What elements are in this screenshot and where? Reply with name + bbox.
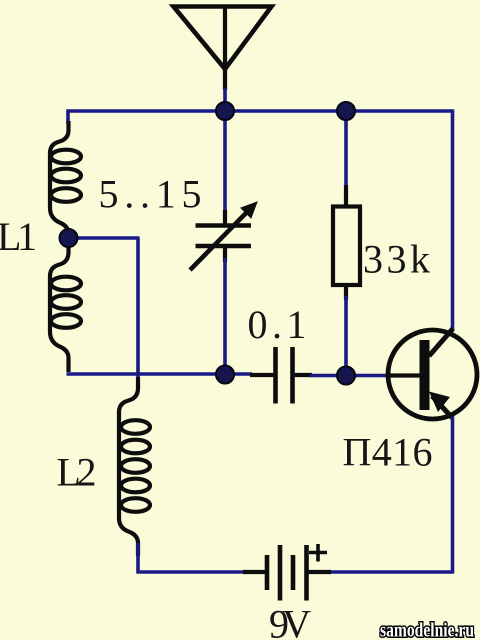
svg-text:9V: 9V — [269, 602, 311, 640]
capacitor 0.1 — [250, 347, 312, 404]
wire resistor bottom — [344, 296, 348, 377]
resistor 33k — [333, 185, 360, 300]
svg-text:samodelnie.ru: samodelnie.ru — [380, 621, 474, 640]
node varicap bottom junction — [216, 366, 234, 384]
wire varicap bottom — [223, 258, 227, 376]
node base junction — [337, 367, 355, 385]
node top resistor junction — [337, 102, 355, 120]
svg-text:0.1: 0.1 — [248, 302, 307, 347]
variable capacitor 5..15 — [190, 202, 257, 270]
wire top horizontal bus — [67, 109, 454, 113]
antenna — [174, 7, 272, 91]
node top antenna junction — [216, 102, 234, 120]
wire resistor top — [344, 111, 348, 188]
inductor L1 — [50, 121, 81, 372]
wire varicap top — [223, 111, 227, 214]
inductor L2 — [119, 377, 150, 556]
svg-text:L2: L2 — [57, 450, 97, 495]
wire top-left drop to L1 — [66, 110, 70, 125]
wire tap drop to L2 — [136, 238, 140, 378]
node L1 tap — [60, 229, 78, 247]
wire L2 bottom drop — [136, 543, 140, 574]
wire right vertical to collector — [451, 110, 455, 331]
wire base junction to transistor — [346, 374, 390, 378]
battery 9V — [243, 544, 331, 601]
transistor П416 — [388, 329, 477, 420]
wire emitter down right side — [451, 417, 455, 574]
svg-text:П416: П416 — [343, 430, 433, 475]
wire L1 tap horizontal — [68, 236, 140, 240]
wire bottom horizontal bus — [137, 570, 247, 574]
wire antenna stem to top bus — [223, 88, 227, 111]
svg-text:L1: L1 — [0, 214, 37, 259]
wire cap to base junction — [310, 374, 348, 378]
svg-text:33k: 33k — [363, 237, 430, 282]
wire mid horizontal bus — [67, 372, 253, 376]
